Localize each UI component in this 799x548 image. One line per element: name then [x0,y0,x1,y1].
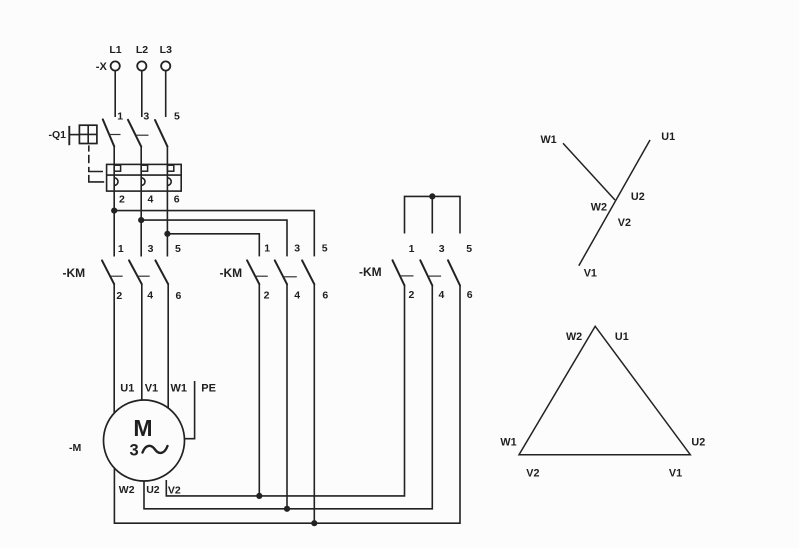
contactor KM2 pole2 blade [275,260,287,284]
svg-text:6: 6 [322,290,328,302]
star diagram winding W1-W2 [563,143,615,200]
svg-text:1: 1 [118,243,124,255]
wire Q1 pole2 to overload [140,147,142,165]
wire PE to motor [184,381,194,439]
contactor KM3 pole1 tick [400,275,413,277]
wire motor V2 to KM3 pole1 [166,286,404,496]
svg-text:PE: PE [201,383,216,395]
svg-text:U2: U2 [631,191,645,203]
motor M1 circle [104,400,185,481]
wire KM2 pole3 down to W2 line [313,284,315,523]
svg-text:3: 3 [439,243,445,255]
contactor KM2 pole2 tick [283,276,296,278]
svg-text:V1: V1 [584,267,597,279]
svg-text:W1: W1 [500,437,516,449]
breaker Q1 pole2 blade [128,120,141,147]
svg-text:5: 5 [174,111,180,123]
terminal X circle L2 [137,61,146,70]
svg-text:V1: V1 [669,468,682,480]
breaker Q1 trip linkage dashed [89,145,104,182]
contactor KM3 star bridge middle stub [431,196,433,233]
svg-text:W1: W1 [171,383,188,395]
svg-text:6: 6 [176,290,182,302]
contactor KM2 pole3 blade [302,260,314,284]
svg-text:-KM: -KM [359,265,382,279]
svg-text:3: 3 [130,442,139,460]
overload heater element pole3 [167,165,173,171]
svg-text:M: M [133,415,152,441]
svg-text:U1: U1 [661,131,675,143]
wire through overload pole1 [113,164,115,256]
wire L3 terminal to Q1 pole3 [165,70,167,117]
svg-text:3: 3 [143,110,149,122]
wire motor W2 to KM3 pole3 [114,286,460,524]
contactor KM2 pole1 blade [247,260,259,284]
svg-text:L2: L2 [136,44,148,56]
svg-text:6: 6 [174,194,180,206]
breaker Q1 pole3 blade [155,120,167,146]
svg-text:-KM: -KM [220,266,243,280]
terminal X circle L1 [111,61,120,70]
contactor KM1 pole1 tick [111,275,123,277]
svg-text:W2: W2 [591,201,607,213]
svg-text:U1: U1 [615,331,629,343]
junction node phase C [164,231,170,237]
svg-text:-X: -X [96,61,108,73]
overload trip semicircle pole1 [114,178,118,186]
wire phase C to KM2 pole1 [167,234,259,257]
wire KM1 pole2 to motor V1 [141,284,143,420]
junction node KM2 pole2 on U2 line [284,506,290,512]
svg-text:2: 2 [264,290,270,302]
svg-text:V2: V2 [526,468,539,480]
breaker Q1 pole1 linkage tick [109,134,121,136]
overload trip semicircle pole2 [141,178,145,186]
svg-text:1: 1 [409,243,415,255]
wire through overload pole2 [140,164,142,256]
wire KM1 pole3 to motor W1 [167,284,169,420]
wire phase B to KM2 pole3 [141,220,287,256]
contactor KM3 pole2 blade [420,260,432,285]
contactor KM1 pole2 blade [129,260,142,284]
terminal X circle L3 [161,61,170,70]
svg-text:-Q1: -Q1 [49,129,67,141]
svg-text:1: 1 [264,243,270,255]
svg-text:V2: V2 [618,217,631,229]
contactor KM1 pole2 tick [138,275,150,277]
svg-text:2: 2 [116,290,122,302]
wire KM2 pole1 down to V2 line [258,284,260,496]
svg-text:L1: L1 [109,44,121,56]
overload heater element pole1 [114,165,120,171]
svg-text:2: 2 [409,289,415,301]
wire L2 terminal to Q1 pole2 [141,70,143,117]
svg-text:4: 4 [439,289,445,301]
svg-text:V2: V2 [168,485,181,497]
svg-text:-M: -M [69,442,81,454]
wire motor U2 to KM3 pole2 [144,286,432,509]
contactor KM3 pole3 blade [448,260,460,285]
svg-text:L3: L3 [160,44,172,56]
wire KM1 pole1 to motor U1 [113,284,115,420]
svg-text:W2: W2 [566,331,582,343]
contactor KM1 pole1 blade [102,260,114,284]
breaker Q1 pole2 linkage tick [136,134,149,136]
svg-text:U1: U1 [120,383,134,395]
wire KM2 pole2 down to U2 line [286,284,288,509]
wire Q1 pole1 to overload [113,146,115,164]
wire through overload pole3 [166,164,168,256]
svg-text:1: 1 [117,110,123,122]
svg-text:6: 6 [467,289,473,301]
svg-text:5: 5 [466,243,472,255]
breaker Q1 pole1 blade [103,119,114,146]
junction node phase A [111,208,117,214]
overload trip semicircle pole3 [167,178,171,186]
breaker Q1 operator box [79,125,97,143]
delta diagram triangle [519,326,690,454]
overload relay box [107,164,182,191]
svg-text:2: 2 [119,194,125,206]
contactor KM3 pole2 tick [428,275,441,277]
breaker Q1 operator bar [68,126,70,145]
svg-text:3: 3 [148,243,154,255]
svg-text:5: 5 [322,243,328,255]
svg-text:U2: U2 [146,484,160,496]
wire Q1 pole3 to overload [166,146,168,164]
wire phase A to KM2 pole5 [114,211,314,257]
svg-text:3: 3 [294,243,300,255]
junction node KM2 pole1 on V2 line [256,493,262,499]
svg-text:W1: W1 [540,134,556,146]
svg-text:4: 4 [294,290,300,302]
svg-text:5: 5 [175,243,181,255]
svg-text:-KM: -KM [63,266,86,280]
contactor KM3 pole1 blade [393,260,405,285]
junction node phase B [138,217,144,223]
motor tilde [143,446,168,453]
svg-text:V1: V1 [145,383,158,395]
svg-text:4: 4 [147,290,153,302]
svg-text:W2: W2 [119,484,135,496]
contactor KM2 pole1 tick [256,275,268,277]
svg-text:4: 4 [148,194,154,206]
overload heater element pole2 [141,165,147,171]
junction node KM2 pole3 on W2 line [311,520,317,526]
contactor KM3 star bridge [405,196,461,233]
wire L1 terminal to Q1 pole1 [114,70,116,117]
breaker Q1 operator link [69,134,79,136]
contactor KM1 pole3 blade [155,260,168,284]
junction node star bridge [429,193,435,199]
svg-text:U2: U2 [691,437,705,449]
star diagram winding U1-V1 [579,140,650,266]
